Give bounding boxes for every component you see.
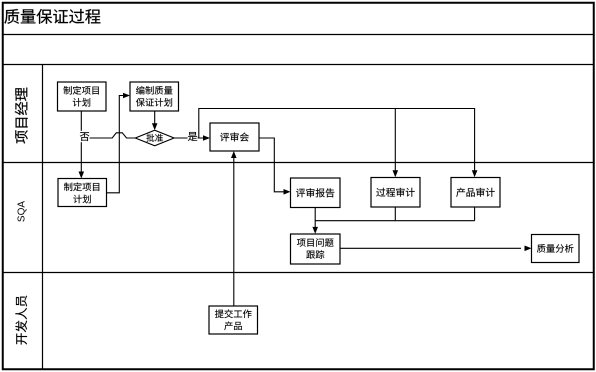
arrow into B7 top: [472, 170, 478, 177]
header band separator line: [2, 64, 594, 66]
lane separator PM/SQA: [2, 162, 594, 164]
box B10 提交工作产品: [209, 306, 258, 334]
lane separator SQA/DEV: [2, 272, 594, 274]
box B8 项目问题跟踪: [291, 234, 341, 264]
arrow into B3 bottom: [231, 151, 237, 158]
lane label 项目经理: [15, 88, 28, 144]
box B2 编制质量保证计划: [130, 82, 179, 111]
arrow into B9 left: [525, 246, 532, 252]
box B3 评审会: [210, 123, 259, 151]
wire W8: B10 top up to B3 bottom: [233, 158, 235, 307]
label 否: [80, 131, 90, 142]
wire W3: B4 right, up, into B2 left: [107, 96, 124, 193]
box B4 制定项目计划 (SQA): [58, 179, 107, 207]
label 是: [188, 131, 198, 142]
wire W9: B5 bottom down to B8 top: [314, 208, 316, 228]
wire W7: B3 right, down, into B5 left: [259, 138, 284, 192]
arrow into B5 left: [284, 189, 291, 195]
lane label 开发人员: [15, 296, 27, 345]
title separator line: [2, 34, 594, 36]
title text 质量保证过程: [4, 9, 100, 24]
arrow into B6 top: [393, 170, 399, 177]
wire W5: diamond right (是) to B3 left: [174, 137, 203, 139]
box B6 过程审计: [371, 178, 420, 208]
box B5 评审报告: [291, 178, 341, 208]
box B9 质量分析: [532, 235, 580, 263]
wire W9b: B6 and B7 bottoms join horizontal into W9: [315, 207, 474, 221]
wire W6: branch up from W5 junction, across, down to B6 and B7 tops: [199, 109, 475, 171]
wire W4: B2 bottom down to diamond top: [154, 111, 156, 124]
arrow into diamond top: [152, 123, 158, 130]
wire W10: B8 right to B9 left: [340, 247, 521, 249]
wire W2: diamond left (否) to W1, with hop over x=119 vertical: [81, 133, 135, 138]
lane label column separator: [42, 65, 44, 370]
arrow into B2 left: [123, 93, 130, 99]
box B7 产品审计: [451, 178, 500, 208]
decision diamond 批准: [135, 130, 174, 146]
arrow into B4 top: [79, 172, 85, 179]
svg-text:SQA: SQA: [17, 201, 28, 222]
wire W1: B1 bottom down to B4 top: [80, 111, 82, 173]
arrow into B3 left: [203, 135, 210, 141]
box B1 制定项目计划 (项目经理): [58, 82, 107, 111]
arrow into B8 top: [312, 227, 318, 234]
